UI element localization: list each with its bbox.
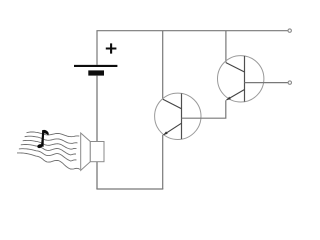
wire top rail from battery positive to output terminal [97,31,288,65]
transistor Q1 collector diagonal [163,99,182,109]
output terminal 2 [288,81,291,84]
sound wave 4 [21,145,76,155]
transistor Q2 body circle [218,56,264,102]
transistor Q1 base bar [181,94,183,140]
wire right collector drop from top rail to Q2 [225,31,227,63]
sound wave 5 [19,149,77,161]
sound wave 1 [27,132,80,137]
wire Q1 emitter drop to bottom rail [162,135,164,189]
music note [37,130,49,149]
transistor Q2 emitter arrow [226,97,230,100]
output terminal 1 [288,29,291,32]
transistor Q2 emitter diagonal [226,90,244,101]
transistor Q1 emitter diagonal [163,123,181,135]
sound wave 2 [25,136,78,143]
speaker LS1 driver body [90,142,104,162]
wire Q1 base lead to Q2 emitter node [182,100,226,118]
transistor Q2 base bar [244,56,246,102]
transistor Q1 emitter arrow [163,131,167,135]
battery BT1 plus label [106,43,117,53]
wire battery negative to speaker [96,76,98,189]
sound wave 3 [23,140,77,149]
battery BT1 positive plate [74,65,117,67]
wire left collector drop from top rail to Q1 [162,31,164,100]
battery BT1 negative plate [88,70,104,75]
transistor Q2 collector diagonal [226,63,245,72]
speaker LS1 cone [81,133,91,170]
wire bottom rail speaker to Q1 emitter [96,188,163,190]
transistor Q1 body circle [155,93,201,139]
sound wave 6 [17,153,80,170]
wire Q2 base lead to output terminal [245,82,289,84]
